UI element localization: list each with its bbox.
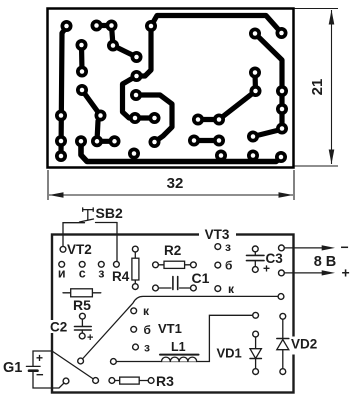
svg-text:8 В: 8 В [314, 254, 337, 270]
svg-text:и: и [58, 267, 66, 281]
svg-text:R4: R4 [112, 269, 130, 284]
svg-text:32: 32 [167, 175, 184, 192]
svg-text:+: + [36, 351, 43, 365]
svg-text:L1: L1 [171, 340, 186, 354]
svg-text:+: + [342, 265, 350, 281]
svg-text:б: б [225, 259, 232, 273]
svg-text:VD2: VD2 [291, 337, 317, 352]
svg-text:R3: R3 [156, 373, 174, 389]
svg-text:21: 21 [309, 79, 326, 96]
svg-text:VT1: VT1 [158, 321, 182, 336]
svg-text:з: з [98, 267, 104, 281]
svg-text:C1: C1 [192, 270, 210, 286]
svg-text:з: з [225, 240, 231, 254]
svg-text:к: к [143, 304, 150, 318]
svg-text:+: + [87, 332, 93, 344]
svg-text:−: − [341, 239, 349, 255]
svg-text:R5: R5 [73, 297, 91, 313]
svg-text:с: с [79, 267, 86, 281]
svg-text:VT2: VT2 [67, 242, 92, 257]
svg-text:R2: R2 [164, 243, 181, 258]
svg-text:G1: G1 [3, 360, 22, 376]
svg-text:VD1: VD1 [217, 346, 242, 361]
svg-text:з: з [144, 341, 150, 355]
svg-text:+: + [263, 262, 270, 276]
svg-text:SB2: SB2 [96, 205, 123, 221]
svg-text:б: б [144, 323, 151, 337]
svg-text:−: − [36, 367, 44, 382]
svg-text:C2: C2 [50, 320, 67, 335]
svg-text:к: к [228, 282, 235, 296]
